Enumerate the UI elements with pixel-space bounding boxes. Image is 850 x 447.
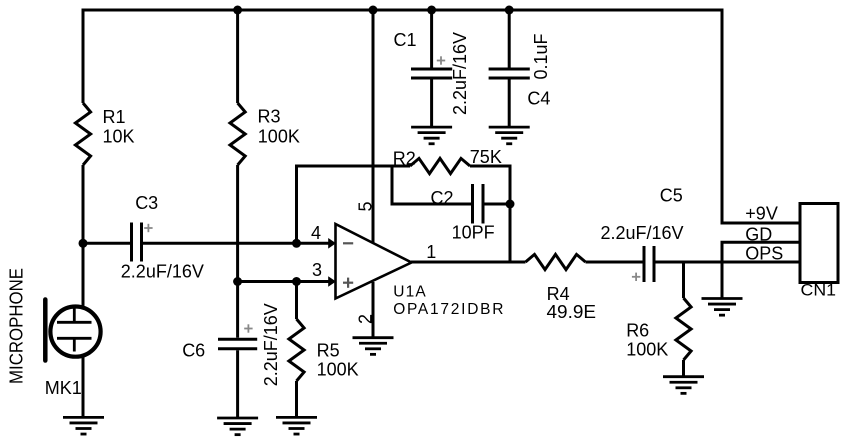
svg-text:5: 5 — [356, 201, 376, 211]
svg-text:OPS: OPS — [745, 244, 783, 264]
svg-text:CN1: CN1 — [801, 281, 837, 300]
svg-text:100K: 100K — [317, 359, 359, 379]
svg-text:100K: 100K — [258, 127, 300, 147]
svg-text:MICROPHONE: MICROPHONE — [6, 268, 26, 384]
svg-text:2: 2 — [356, 314, 376, 324]
svg-text:75K: 75K — [470, 147, 502, 167]
svg-text:C1: C1 — [394, 30, 417, 50]
svg-text:C3: C3 — [135, 193, 158, 213]
svg-text:2.2uF/16V: 2.2uF/16V — [261, 303, 281, 386]
svg-text:+9V: +9V — [745, 204, 778, 224]
svg-text:10K: 10K — [103, 127, 135, 147]
svg-text:100K: 100K — [626, 340, 668, 360]
svg-text:10PF: 10PF — [452, 223, 495, 243]
svg-text:R5: R5 — [317, 341, 340, 361]
svg-text:U1A: U1A — [393, 283, 427, 300]
svg-text:0.1uF: 0.1uF — [531, 33, 551, 79]
svg-text:R4: R4 — [547, 284, 570, 304]
svg-text:2.2uF/16V: 2.2uF/16V — [121, 261, 204, 281]
svg-text:49.9E: 49.9E — [547, 302, 597, 322]
svg-text:4: 4 — [311, 223, 321, 243]
svg-text:2.2uF/16V: 2.2uF/16V — [450, 32, 470, 115]
svg-text:C2: C2 — [431, 188, 454, 208]
svg-text:3: 3 — [312, 260, 322, 280]
svg-text:OPA172IDBR: OPA172IDBR — [393, 301, 505, 318]
svg-text:C6: C6 — [182, 341, 205, 361]
svg-text:2.2uF/16V: 2.2uF/16V — [601, 223, 684, 243]
svg-text:GD: GD — [745, 224, 772, 244]
svg-text:MK1: MK1 — [45, 378, 82, 398]
svg-text:R1: R1 — [103, 107, 126, 127]
svg-text:1: 1 — [426, 242, 436, 262]
svg-text:R6: R6 — [626, 320, 649, 340]
svg-text:C5: C5 — [660, 186, 683, 206]
svg-text:R3: R3 — [258, 107, 281, 127]
svg-text:R2: R2 — [393, 149, 416, 169]
svg-text:C4: C4 — [527, 88, 550, 108]
